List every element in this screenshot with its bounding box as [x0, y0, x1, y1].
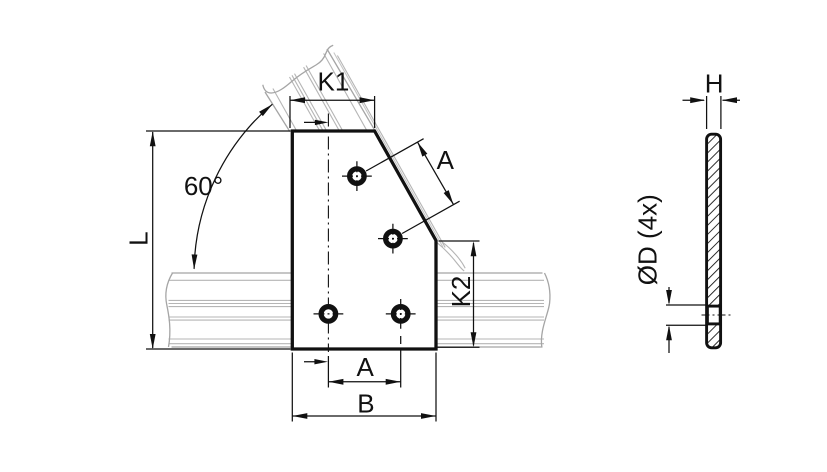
small arrow to hole centerline (top) [304, 120, 328, 125]
hole C3 [314, 307, 344, 322]
connection plate outline (front view) [292, 131, 436, 349]
svg-text:K1: K1 [317, 67, 349, 97]
svg-text:A: A [437, 145, 455, 175]
svg-text:L: L [123, 231, 153, 245]
svg-text:ØD (4x): ØD (4x) [633, 194, 663, 285]
svg-text:B: B [357, 389, 374, 419]
side view hole (section) [707, 306, 720, 324]
hole C4 [386, 299, 416, 329]
hole C1 [342, 161, 372, 191]
side view plate body with hatching [707, 134, 721, 348]
hole C2 [378, 224, 408, 254]
dimension A (slanted hole spacing) [366, 139, 460, 234]
dimension L (left height) [146, 131, 291, 349]
dimension K2 (right) [438, 241, 480, 347]
side view hole centerline [702, 314, 731, 316]
centerline of left hole column (dash-dot) [327, 114, 329, 353]
svg-text:A: A [357, 352, 375, 382]
svg-text:H: H [705, 69, 724, 99]
dimension B (bottom width) [292, 353, 436, 422]
svg-text:60°: 60° [184, 171, 223, 201]
svg-text:K2: K2 [446, 276, 476, 308]
dimension K1 (top width) [290, 96, 375, 128]
angular dimension arc 60deg [191, 102, 274, 270]
dimension A (bottom hole spacing) [328, 336, 400, 388]
slanted extrusion profile (60 deg, behind plate top) [263, 45, 465, 271]
horizontal extrusion profile (left segment, behind plate) [166, 273, 291, 347]
small arrow to hole centerline (bottom) [304, 359, 328, 364]
dimension D (hole diameter, side view) [666, 287, 708, 353]
dimension H (thickness) [683, 96, 741, 129]
horizontal extrusion profile (right segment, behind plate) [437, 273, 550, 347]
